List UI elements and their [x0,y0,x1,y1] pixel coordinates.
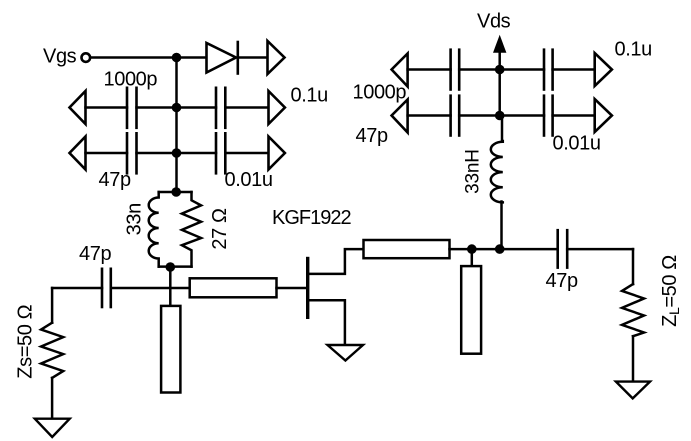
svg-text:0.1u: 0.1u [615,39,652,61]
wire bus to C 0.01u [177,152,217,155]
wire port to C 1000p (drain) [408,68,451,71]
svg-text:47p: 47p [99,169,131,191]
svg-text:0.01u: 0.01u [225,169,273,191]
port arrow left row2 (gate) [70,137,86,170]
ground (source side) [35,419,70,437]
capacitor 0.01u (gate) [216,133,225,173]
svg-text:47p: 47p [546,270,578,292]
wire C 0.1u to port (drain) [553,68,595,71]
wire Q1 source lead [309,300,345,345]
capacitor 1000p (drain) [451,50,460,90]
wire L2 top to drain bias bus [501,116,504,142]
svg-text:33nH: 33nH [463,149,484,194]
node row2 junction (drain) [495,111,505,121]
wire load corner down [632,249,635,284]
svg-text:KGF1922: KGF1922 [272,207,351,229]
wire bus to C 0.1u [177,106,217,109]
wire input corner to C47p [52,287,102,290]
port arrow right row1 (drain) [595,53,612,86]
capacitor 0.1u (gate) [216,88,225,128]
wire C 47p to bus [137,152,177,155]
wire C47p out to load corner [567,248,633,251]
svg-text:ZL=50 Ω: ZL=50 Ω [659,255,682,327]
svg-text:1000p: 1000p [104,69,158,91]
capacitor 47p (output) [558,230,568,267]
svg-text:0.1u: 0.1u [291,85,328,107]
wire ZL to ground [632,336,635,381]
node drain bias junction [495,244,505,254]
port arrow right row1 (gate) [269,91,285,124]
wire junction to diode D1 anode [177,56,207,59]
wire D1 cathode to port [239,56,268,59]
wire port to C 1000p [86,106,128,109]
wire Vds arrow to row1 [498,48,501,70]
inductor L2 33nH [491,141,503,202]
svg-text:0.01u: 0.01u [553,133,601,155]
svg-text:Zs=50 Ω: Zs=50 Ω [15,304,37,378]
port arrow right row2 (gate) [269,137,285,170]
transmission line TL1 (series, gate) [190,278,277,297]
svg-text:47p: 47p [79,243,111,265]
diode D1 [207,42,238,74]
ground (Q1 source) [328,345,364,361]
stub TL2 (open, gate) [161,306,180,393]
node gate bias bus top junction [172,53,182,63]
svg-text:27 Ω: 27 Ω [209,208,231,250]
wire gate bias vertical bus [175,58,178,193]
capacitor 0.1u (drain) [544,50,553,90]
capacitor 1000p (gate) [127,88,137,128]
svg-text:1000p: 1000p [353,82,407,104]
wire TL3 to output network [450,248,558,251]
wire L1/R1 top rail [159,191,192,194]
terminal Vgs open circle [82,53,91,62]
wire C 0.1u to port [225,106,268,109]
inductor L1 33n [149,192,159,267]
arrow Vds supply [493,35,506,53]
ground (load side) [616,382,650,399]
wire C 0.01u to port [225,152,268,155]
node row2 junction (gate) [172,148,182,158]
wire C 1000p to bus [137,106,177,109]
wire L1/R1 bottom rail [159,265,192,268]
wire bus to C 0.01u (drain) [500,114,544,117]
resistor R1 27ohm [182,192,201,267]
wire bias junction up to L2 [500,202,503,250]
transistor Q1 gate bar [306,259,309,318]
capacitor 47p (input) [102,269,111,307]
port arrow left row1 (gate) [70,91,86,124]
wire source corner down [51,288,54,323]
node drain stub junction [467,244,477,254]
node L1/R1 top junction [171,187,181,197]
capacitor 47p (gate) [127,133,137,173]
port arrow left row2 (drain) [392,100,408,133]
svg-text:Vgs: Vgs [43,46,77,68]
wire C47p to microstrip TL1 [111,287,190,290]
resistor Zs 50ohm [41,323,63,378]
port arrow right row2 (drain) [595,99,612,132]
node L1/R1 bottom junction [166,262,176,272]
wire Zs to ground [51,378,54,419]
wire C 0.01u to port (drain) [553,114,595,117]
svg-text:33n: 33n [124,203,146,235]
wire Vgs terminal to gate bias bus [90,56,176,59]
svg-text:Vds: Vds [477,11,511,33]
wire Q1 drain lead [309,249,364,274]
svg-text:47p: 47p [356,125,388,147]
transmission line TL3 (series, drain) [364,240,450,258]
port arrow right of D1 [268,41,285,74]
wire junction to stub TL4 [471,249,474,266]
wire bus to C 0.1u (drain) [500,68,544,71]
capacitor 47p (drain) [451,96,460,136]
wire C 1000p to bus (drain) [459,68,500,71]
wire TL1 to gate [277,287,307,290]
capacitor 0.01u (drain) [544,96,553,136]
node row1 junction (drain) [495,65,505,75]
wire junction down to gate line and stub [169,267,172,306]
port arrow left row1 (drain) [392,54,408,87]
wire port to C 47p [86,152,128,155]
wire port to C 47p (drain) [408,114,451,117]
wire C 47p to bus (drain) [459,114,500,117]
stub TL4 (open, drain) [461,266,481,354]
wire drain bias bus vertical [498,70,501,116]
node row1 junction (gate) [172,103,182,113]
resistor ZL 50ohm [622,284,644,336]
